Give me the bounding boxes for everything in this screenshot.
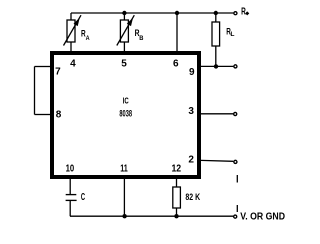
svg-text:8: 8 — [56, 110, 62, 121]
resistor RL — [212, 13, 220, 66]
wire pin6 to top rail — [176, 13, 178, 51]
svg-text:10: 10 — [66, 164, 75, 175]
svg-text:9: 9 — [189, 67, 195, 78]
wire pin7 to loop — [35, 66, 51, 68]
wire pin 9 — [201, 65, 233, 67]
svg-text:8038: 8038 — [119, 108, 132, 118]
svg-text:5: 5 — [121, 59, 127, 70]
label RB — [135, 28, 144, 42]
svg-text:L: L — [230, 31, 234, 38]
IC U1 8038 body — [52, 53, 199, 177]
wire loop left vertical (pin7 to pin8) — [34, 67, 36, 115]
resistor RB (variable) — [117, 13, 135, 51]
junction dot above RB — [122, 11, 126, 15]
resistor RA (variable) — [64, 13, 82, 51]
terminal R+ open circle — [234, 12, 237, 15]
svg-text:B: B — [139, 35, 143, 42]
svg-text:82 K: 82 K — [185, 192, 200, 203]
svg-text:11: 11 — [120, 164, 128, 175]
svg-text:IC: IC — [123, 96, 129, 106]
wire bottom rail — [70, 215, 233, 217]
svg-text:6: 6 — [173, 59, 179, 70]
junction dot pin9/RL — [214, 64, 218, 68]
resistor R 82K — [173, 179, 181, 216]
svg-text:R: R — [241, 7, 246, 18]
terminal pin 3 open circle — [234, 112, 237, 115]
svg-text:12: 12 — [171, 164, 181, 175]
label RA — [81, 29, 90, 43]
terminal V-/GND open circle — [234, 215, 237, 218]
wire pin 2 — [201, 159, 233, 162]
junction dot above RL — [214, 11, 218, 15]
svg-text:C: C — [81, 192, 85, 203]
wire loop to pin8 — [35, 114, 51, 116]
junction dot 82K/bottom rail — [174, 214, 178, 218]
junction dot pin11/bottom rail — [122, 214, 126, 218]
svg-text:3: 3 — [188, 106, 194, 117]
label RL — [226, 27, 234, 39]
dashed wire pin2 terminal to V-/GND terminal — [236, 175, 238, 212]
svg-text:4: 4 — [70, 58, 76, 69]
svg-text:7: 7 — [55, 66, 61, 77]
wire V+ top rail — [71, 12, 233, 14]
wire pin 3 — [201, 113, 233, 115]
terminal pin 2 open circle — [234, 160, 237, 163]
junction dot above pin 6 — [175, 11, 179, 15]
capacitor C — [66, 179, 77, 216]
svg-text:2: 2 — [188, 155, 194, 166]
svg-text:A: A — [86, 35, 90, 42]
svg-text:V. OR GND: V. OR GND — [240, 212, 285, 223]
label R+ — [241, 7, 249, 18]
wire pin 11 down — [123, 179, 125, 216]
terminal pin 9 open circle — [234, 65, 237, 68]
